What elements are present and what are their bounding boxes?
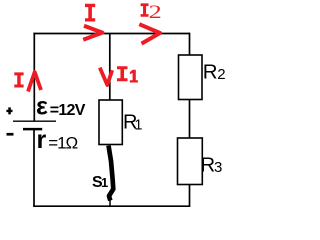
svg-text:R: R	[200, 153, 215, 176]
wire middle vertical from top node to R1	[109, 33, 111, 101]
wire right vertical below R3	[189, 184, 191, 207]
resistor R3 box	[178, 138, 203, 185]
wire top horizontal	[33, 33, 190, 35]
svg-text:1: 1	[134, 117, 142, 133]
svg-text:1: 1	[101, 175, 108, 190]
svg-text:2: 2	[217, 66, 225, 83]
battery minus sign	[7, 133, 14, 136]
svg-text:r: r	[37, 126, 47, 154]
current arrow down on middle wire	[100, 68, 112, 85]
battery plus sign	[6, 107, 12, 114]
wire right vertical above R2	[189, 33, 191, 56]
wire left vertical upper (to battery)	[33, 33, 35, 121]
current arrow right on top wire before node	[83, 26, 102, 40]
svg-text:2: 2	[149, 1, 162, 22]
svg-text:=1Ω: =1Ω	[48, 133, 77, 152]
current arrow right on top wire after node	[139, 24, 160, 43]
current I label left (serif I-beam)	[14, 72, 23, 87]
switch S1 blade	[109, 146, 114, 201]
wire left vertical lower (from battery)	[33, 130, 35, 207]
svg-text:3: 3	[214, 159, 222, 176]
battery positive plate (long)	[13, 120, 56, 122]
current I label top (serif I-beam)	[85, 4, 95, 22]
svg-text:ε: ε	[36, 93, 48, 121]
current arrow up on left wire	[28, 72, 41, 92]
current I2 label (serif I-beam + serif 2)	[141, 3, 149, 16]
resistor R2 box	[179, 55, 203, 100]
wire stub below switch to bottom wire	[109, 196, 111, 207]
wire right vertical between R2 and R3	[189, 99, 191, 139]
current I1 label (serif I-beam + serif 1)	[117, 66, 128, 81]
svg-text:R: R	[203, 60, 218, 83]
resistor R1 box	[99, 100, 122, 145]
battery negative plate (short thick)	[23, 128, 42, 131]
svg-text:=12V: =12V	[50, 102, 86, 119]
wire bottom horizontal	[33, 205, 189, 207]
